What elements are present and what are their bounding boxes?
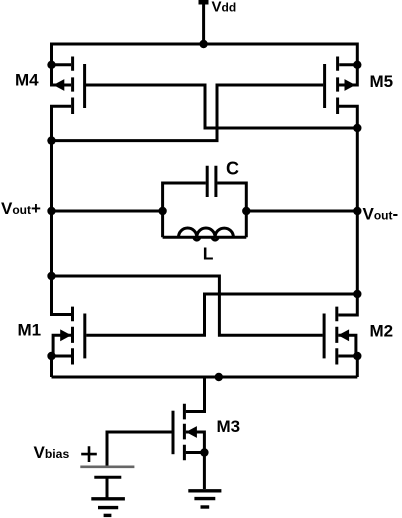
- svg-text:Vdd: Vdd: [212, 0, 237, 16]
- transistor M4: [52, 57, 85, 115]
- inductor L: [163, 228, 247, 240]
- M5 channel bar segments: [336, 57, 339, 115]
- node M2 source: [353, 352, 361, 360]
- battery Vbias positive plate: [80, 465, 134, 468]
- node Vout+: [47, 207, 55, 215]
- node tank left: [158, 207, 166, 215]
- M4 gate bar: [83, 64, 86, 108]
- transistor M5: [325, 57, 358, 115]
- svg-text:M4: M4: [15, 71, 39, 90]
- wire Vdd stub: [202, 2, 205, 44]
- node tail: [215, 373, 223, 381]
- node M1 drain junction: [47, 272, 55, 280]
- M2 gate bar: [323, 314, 326, 359]
- ground below M3: [188, 491, 221, 507]
- M3 gate bar: [172, 411, 175, 455]
- svg-text:L: L: [203, 244, 214, 264]
- M5 gate bar: [323, 64, 326, 108]
- node M5 gate to left rail: [47, 136, 55, 144]
- node M4 source: [47, 61, 55, 69]
- node M3 source: [200, 448, 208, 456]
- M1 bulk wire: [53, 335, 71, 356]
- svg-text:M3: M3: [217, 417, 241, 436]
- wire M4 gate cross-coupled to M5 drain: [86, 85, 357, 128]
- wire tank to Vout-: [246, 210, 357, 213]
- wire M1 source to bottom rail: [50, 356, 53, 377]
- M2 source stub: [338, 355, 357, 358]
- transistor M1: [52, 307, 85, 365]
- node Vdd junction: [199, 40, 207, 48]
- wire tank right branch: [217, 183, 246, 237]
- svg-text:M1: M1: [18, 321, 42, 340]
- M1 channel bar segments: [71, 307, 74, 365]
- M1 bulk arrow: [60, 329, 71, 341]
- battery Vbias negative plate: [94, 476, 121, 479]
- node tank right: [242, 207, 250, 215]
- wire tank left branch: [163, 183, 206, 237]
- wire battery to ground: [106, 479, 109, 498]
- M1 gate bar: [83, 314, 86, 359]
- transistor M2: [324, 307, 357, 365]
- M3 bulk arrow: [186, 426, 197, 438]
- node M1 source: [47, 352, 55, 360]
- wire M1 drain cross-coupled to M2 gate: [52, 276, 323, 335]
- M5 bulk arrow: [345, 79, 356, 91]
- capacitor C plates: [207, 166, 216, 197]
- wire M3 source to ground: [203, 453, 206, 490]
- wire Vout+ to tank: [52, 210, 163, 213]
- wire M5 gate cross-coupled to M4 drain: [52, 85, 324, 141]
- wire M3 gate to Vbias: [107, 432, 172, 466]
- svg-text:M5: M5: [370, 72, 394, 91]
- transistor M3: [173, 404, 204, 461]
- M4 bulk arrow: [53, 79, 64, 91]
- M3 bulk wire: [186, 432, 205, 453]
- M2 bulk wire: [338, 335, 356, 356]
- svg-text:M2: M2: [370, 322, 394, 341]
- wire M5 drain down right rail to M2 drain: [338, 106, 357, 315]
- Vdd terminal tick: [199, 0, 209, 5]
- ground below battery: [91, 499, 125, 516]
- svg-text:C: C: [226, 159, 239, 179]
- node Vout-: [353, 207, 361, 215]
- M2 bulk arrow: [338, 329, 349, 341]
- M4 channel bar segments: [71, 57, 74, 115]
- wire M2 source to bottom rail: [356, 356, 359, 377]
- M2 channel bar segments: [335, 307, 338, 365]
- wire M4 drain down left rail to M1 drain: [52, 106, 72, 314]
- wire bottom rail: [52, 376, 358, 379]
- M4 source stub: [52, 63, 72, 66]
- label plus sign: [81, 446, 97, 462]
- M3 source stub: [186, 451, 205, 454]
- wire M2 drain cross-coupled to M1 gate: [86, 294, 357, 335]
- wire M3 drain to rail: [186, 377, 205, 412]
- node M2 drain junction: [353, 290, 361, 298]
- wire top rail with rails down to M4/M5 bulk: [52, 44, 358, 85]
- M3 channel bar segments: [183, 404, 186, 461]
- node M5 source: [353, 61, 361, 69]
- M5 source stub: [339, 63, 357, 66]
- M1 source stub: [52, 355, 72, 358]
- node M4 gate to right rail: [353, 124, 361, 132]
